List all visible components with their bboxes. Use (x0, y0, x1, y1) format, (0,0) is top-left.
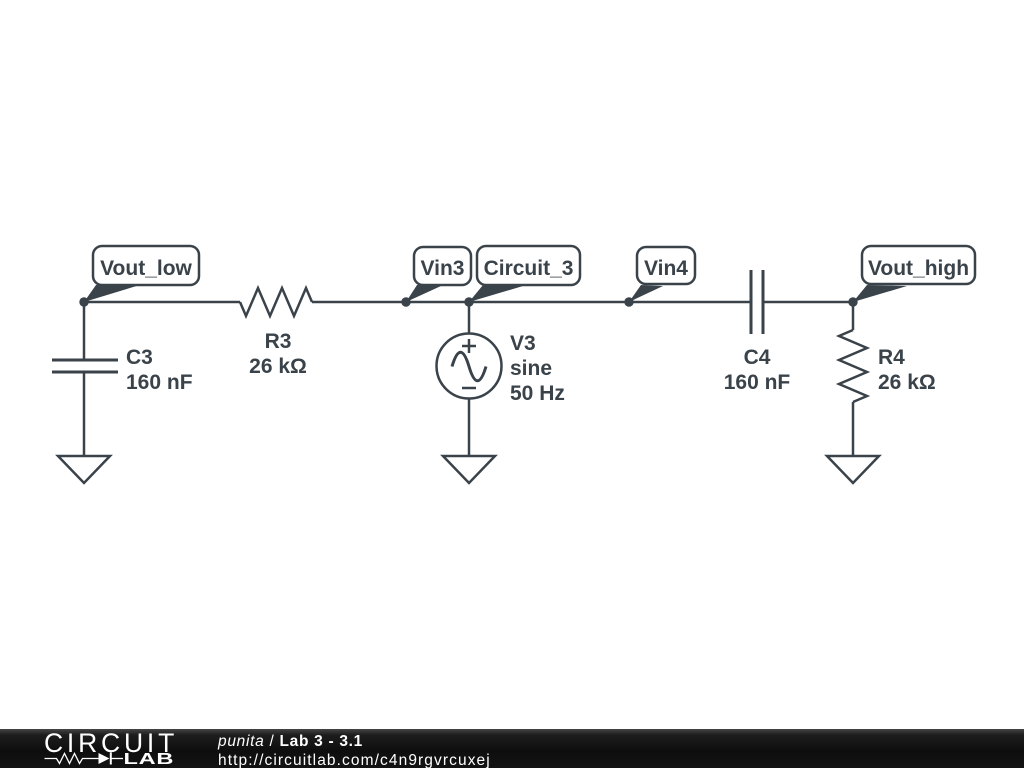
C3 value label (126, 371, 193, 394)
wire: R4 bottom to ground (852, 402, 855, 456)
svg-text:Circuit_3: Circuit_3 (484, 257, 574, 280)
R4 value label (878, 371, 936, 394)
ground: below V3 (443, 456, 495, 483)
resistor R4 (839, 330, 867, 402)
svg-text:160 nF: 160 nF (126, 371, 193, 394)
C4 value label (724, 371, 791, 394)
ground: below C3 (58, 456, 110, 483)
svg-text:26 kΩ: 26 kΩ (249, 355, 307, 378)
node flag Vout_high (853, 246, 975, 302)
footer watermark bar (0, 729, 1024, 768)
capacitor C3 (52, 360, 118, 372)
node junction Vout_low (79, 297, 88, 306)
voltage source V3 (437, 334, 502, 399)
R4 designator label (878, 346, 905, 369)
capacitor C4 (751, 270, 763, 334)
svg-text:V3: V3 (510, 332, 536, 355)
node flag Vin3 (406, 247, 471, 302)
wire: Vout_low node to R3 left (84, 301, 240, 304)
svg-text:50 Hz: 50 Hz (510, 382, 565, 405)
resistor R3 (240, 288, 312, 316)
node junction Vin4 (624, 297, 633, 306)
svg-text:Vout_high: Vout_high (868, 257, 969, 280)
svg-text:26 kΩ: 26 kΩ (878, 371, 936, 394)
wire: C4 right plate to Vout_high node (763, 301, 853, 304)
R3 designator label (265, 330, 292, 353)
CircuitLab logo (44, 728, 178, 768)
node junction Vin3 (401, 297, 410, 306)
V3 frequency label (510, 382, 565, 405)
wire: Circuit_3 node to Vin4 node (469, 301, 629, 304)
svg-text:Vin3: Vin3 (421, 257, 465, 280)
footer title text (218, 732, 491, 770)
V3 designator label (510, 332, 536, 355)
wire: C3 bottom plate to ground (83, 372, 86, 456)
wire: Vout_high node down to R4 top (852, 302, 855, 330)
svg-text:sine: sine (510, 357, 552, 380)
svg-text:LAB: LAB (124, 751, 175, 768)
wire: Vout_low node down to C3 top plate (83, 302, 86, 360)
svg-text:R4: R4 (878, 346, 905, 369)
svg-text:160 nF: 160 nF (724, 371, 791, 394)
svg-text:C3: C3 (126, 346, 153, 369)
node junction Circuit_3 (464, 297, 473, 306)
wire: V3 bottom to ground (468, 399, 471, 457)
C4 designator label (744, 346, 771, 369)
wire: Vin4 node to C4 left plate (629, 301, 751, 304)
svg-text:Vin4: Vin4 (644, 257, 688, 280)
R3 value label (249, 355, 307, 378)
wire: R3 right to Vin3 node (312, 301, 406, 304)
node junction Vout_high (848, 297, 857, 306)
V3 type label (510, 357, 552, 380)
svg-text:C4: C4 (744, 346, 771, 369)
node flag Vin4 (629, 247, 695, 302)
node flag Vout_low (84, 246, 199, 302)
svg-text:Vout_low: Vout_low (100, 257, 192, 280)
svg-text:R3: R3 (265, 330, 292, 353)
C3 designator label (126, 346, 153, 369)
node flag Circuit_3 (469, 246, 580, 302)
wire: Vin3 node to Circuit_3 node (406, 301, 469, 304)
ground: below R4 (827, 456, 879, 483)
wire: Circuit_3 node down to V3 top (468, 302, 471, 334)
